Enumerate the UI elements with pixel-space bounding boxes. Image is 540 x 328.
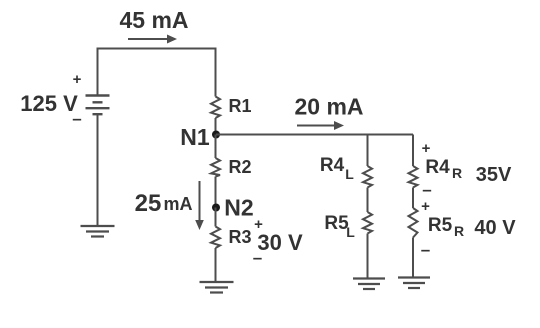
wire R5L to ground xyxy=(367,234,369,279)
label R4 L xyxy=(320,155,354,182)
label R2 xyxy=(228,157,251,177)
battery minus sign xyxy=(72,109,81,128)
plus sign of 30 V xyxy=(254,216,263,233)
svg-text:125 V: 125 V xyxy=(20,91,78,116)
ground below R3 xyxy=(200,282,234,293)
arrow 20 mA xyxy=(297,121,344,130)
label 35V xyxy=(476,164,512,186)
ground below battery xyxy=(81,226,115,237)
label R5 R xyxy=(428,215,464,239)
label R4 R xyxy=(425,157,462,181)
label N2 xyxy=(224,195,253,221)
node N2 xyxy=(212,204,220,212)
resistor R4L xyxy=(363,166,372,188)
arrow 45 mA xyxy=(128,35,177,44)
svg-text:N2: N2 xyxy=(224,195,253,221)
svg-text:–: – xyxy=(253,248,262,267)
label 45 mA xyxy=(119,7,188,33)
resistor R2 xyxy=(211,158,220,177)
label 125 V xyxy=(20,91,78,116)
wire battery bottom to ground xyxy=(97,114,99,226)
label 40 V xyxy=(474,217,516,239)
svg-text:20 mA: 20 mA xyxy=(294,94,363,120)
minus sign below R5R xyxy=(421,240,430,259)
wire node N1 to R2 top xyxy=(215,135,217,159)
battery 125 V xyxy=(86,96,110,115)
wire battery top to R1 top xyxy=(98,49,216,97)
svg-text:25: 25 xyxy=(135,190,162,217)
svg-text:R: R xyxy=(454,223,464,239)
svg-text:40 V: 40 V xyxy=(474,217,516,239)
plus sign above R5R xyxy=(421,198,430,215)
svg-text:R4: R4 xyxy=(425,157,450,178)
wire R2 bottom to node N2 xyxy=(215,177,217,208)
label R1 xyxy=(228,96,251,116)
svg-text:R4: R4 xyxy=(320,155,345,176)
ground below right branch xyxy=(398,278,430,289)
svg-text:–: – xyxy=(421,240,430,259)
label R5 L xyxy=(324,213,355,240)
svg-text:–: – xyxy=(422,180,431,199)
label N1 xyxy=(180,124,210,150)
arrow 25 mA downward xyxy=(195,181,204,230)
resistor R1 xyxy=(211,97,220,119)
svg-text:+: + xyxy=(422,140,431,157)
resistor R4R xyxy=(409,166,418,188)
svg-text:N1: N1 xyxy=(180,124,210,150)
label R3 xyxy=(228,227,251,247)
svg-text:R1: R1 xyxy=(228,96,251,116)
resistor R5R xyxy=(409,208,418,238)
svg-text:R: R xyxy=(452,165,462,181)
svg-text:R5: R5 xyxy=(428,215,453,236)
resistor R3 xyxy=(211,227,220,249)
svg-text:mA: mA xyxy=(163,194,192,214)
node N1 xyxy=(212,131,220,139)
label 30 V xyxy=(257,230,303,255)
wire R3 bottom to ground xyxy=(215,248,217,282)
svg-text:30 V: 30 V xyxy=(257,230,303,255)
wire R4R to R5R xyxy=(412,188,414,209)
label 25 mA xyxy=(135,190,193,217)
wire left branch from top wire to R4L xyxy=(367,135,369,167)
minus sign below R4R xyxy=(422,180,431,199)
svg-text:R3: R3 xyxy=(228,227,251,247)
wire R4L to R5L xyxy=(367,188,369,213)
battery plus sign xyxy=(73,71,82,88)
wire R5R to ground xyxy=(412,238,414,278)
svg-text:L: L xyxy=(346,224,355,240)
svg-text:L: L xyxy=(345,166,354,182)
svg-text:45 mA: 45 mA xyxy=(119,7,188,33)
wire R1 bottom to node N1 xyxy=(215,118,217,135)
svg-text:35V: 35V xyxy=(476,164,512,186)
wire node N2 to R3 top xyxy=(215,208,217,227)
wire node N1 to right branches xyxy=(216,134,413,136)
plus sign above R4R xyxy=(422,140,431,157)
svg-text:R2: R2 xyxy=(228,157,251,177)
resistor R5L xyxy=(363,212,372,234)
svg-text:+: + xyxy=(421,198,430,215)
ground below left branch xyxy=(353,279,385,290)
minus sign of 30 V xyxy=(253,248,262,267)
svg-text:+: + xyxy=(73,71,82,88)
wire right branch from top wire to R4R xyxy=(412,135,414,167)
label 20 mA xyxy=(294,94,363,120)
